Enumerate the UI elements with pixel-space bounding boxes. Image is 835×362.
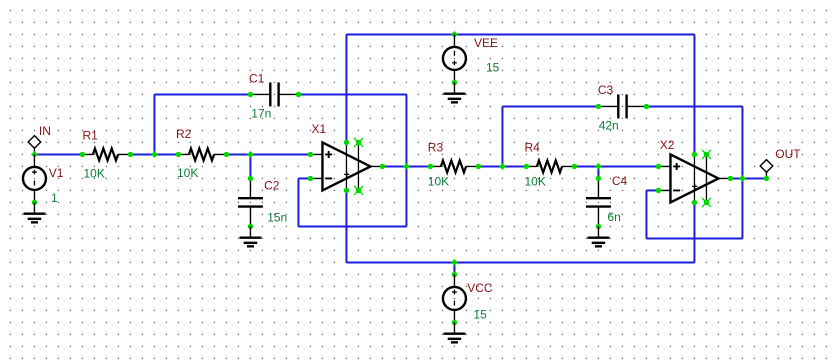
wire riser C1 to X1 output	[405, 94, 407, 166]
source VEE	[443, 47, 466, 70]
wire X1 feedback to -in	[298, 177, 310, 179]
wire X1 feedback riser	[297, 178, 299, 226]
wire rail right lower	[693, 202, 695, 262]
pin dot V1 minus	[32, 200, 37, 205]
svg-text:1: 1	[51, 191, 58, 205]
wire C3 right	[646, 105, 742, 107]
node C2 junction	[247, 151, 254, 158]
svg-text:10K: 10K	[177, 166, 198, 180]
pin dot VCC minus	[452, 320, 457, 325]
source VCC	[443, 287, 466, 310]
svg-text:VCC: VCC	[467, 281, 493, 295]
wire X2 feedback riser	[645, 190, 647, 238]
node C4 junction	[595, 163, 602, 170]
svg-text:6n: 6n	[607, 210, 620, 224]
source VCC top lead	[453, 274, 455, 287]
svg-text:C3: C3	[598, 83, 614, 97]
node X2 output junction	[739, 175, 746, 182]
wire node B riser to C3	[501, 106, 503, 166]
svg-text:15n: 15n	[267, 211, 287, 225]
svg-text:V1: V1	[49, 166, 64, 180]
ground C2	[239, 226, 261, 246]
capacitor C4	[586, 176, 611, 229]
wire rail left lower	[345, 190, 347, 262]
svg-text:R3: R3	[428, 141, 444, 155]
wire C3 left	[502, 105, 598, 107]
wire C2 drop	[249, 154, 251, 178]
source V1 top lead	[33, 154, 35, 167]
svg-text:VEE: VEE	[474, 36, 498, 50]
svg-text:10K: 10K	[84, 166, 105, 180]
port IN stub	[33, 148, 35, 154]
wire R1 to R2	[130, 153, 178, 155]
wire X1 output to R3	[382, 165, 430, 167]
wire X2 feedback bottom	[646, 237, 742, 239]
pin dot VCC plus	[452, 272, 457, 277]
resistor R2	[176, 148, 229, 160]
svg-text:C4: C4	[612, 174, 628, 188]
ground VEE	[443, 82, 465, 102]
node B junction	[499, 163, 506, 170]
svg-text:15: 15	[486, 61, 500, 75]
pin dot OUT	[764, 176, 769, 181]
ground C4	[587, 226, 609, 246]
svg-text:X2: X2	[660, 138, 675, 152]
svg-text:10K: 10K	[525, 175, 546, 189]
svg-text:IN: IN	[39, 124, 51, 138]
svg-text:R1: R1	[83, 129, 99, 143]
node IN junction	[31, 151, 38, 158]
node X1 output junction	[403, 163, 410, 170]
wire VEE rail top	[346, 33, 694, 35]
svg-text:C2: C2	[264, 179, 280, 193]
source VCC bottom lead	[453, 310, 455, 323]
node VEE rail junction	[451, 31, 458, 38]
source V1	[23, 167, 46, 190]
wire C4 drop	[597, 166, 599, 178]
capacitor C1	[248, 82, 301, 106]
port OUT stub	[765, 172, 767, 178]
pin dot VEE minus	[452, 80, 457, 85]
svg-text:C1: C1	[249, 72, 265, 86]
svg-text:R2: R2	[176, 127, 192, 141]
node A junction	[151, 151, 158, 158]
wire C1 right to riser	[298, 93, 406, 95]
wire rail left upper	[345, 34, 347, 142]
svg-text:15: 15	[473, 308, 487, 322]
source V1 bottom lead	[33, 190, 35, 203]
resistor R1	[80, 148, 133, 160]
wire VCC stub	[453, 262, 455, 274]
svg-text:OUT: OUT	[775, 147, 801, 161]
source VEE top lead	[453, 34, 455, 47]
port IN	[28, 136, 41, 149]
wire X1 feedback bottom	[298, 225, 406, 227]
svg-text:X1: X1	[312, 122, 327, 136]
capacitor C2	[238, 176, 263, 229]
wire VCC rail bottom	[346, 261, 694, 263]
node VCC rail junction	[451, 259, 458, 266]
svg-text:10K: 10K	[428, 175, 449, 189]
svg-text:42n: 42n	[599, 119, 619, 133]
ground V1	[23, 202, 45, 222]
wire X2 output node drop	[741, 178, 743, 238]
resistor R4	[524, 160, 577, 172]
wire C3 drop to X2 output	[741, 106, 743, 178]
wire X2 output to OUT	[730, 177, 766, 179]
capacitor C3	[596, 94, 649, 118]
op-amp X1	[308, 138, 385, 195]
svg-text:R4: R4	[525, 141, 541, 155]
wire X1 output node drop	[405, 166, 407, 226]
wire node A riser to C1	[153, 94, 155, 154]
ground VCC	[443, 322, 465, 342]
wire IN node to R1	[34, 153, 82, 155]
wire R3 to R4	[478, 165, 526, 167]
svg-text:17n: 17n	[251, 106, 271, 120]
op-amp X2	[656, 150, 733, 207]
wire C1 left	[154, 93, 250, 95]
resistor R3	[428, 160, 481, 172]
wire rail right upper	[693, 34, 695, 154]
port OUT	[760, 160, 773, 173]
wire R4 to X2 +in	[574, 165, 658, 167]
wire X2 feedback to -in	[646, 189, 658, 191]
source VEE bottom lead	[453, 70, 455, 83]
wire R2 to X1 +in	[226, 153, 310, 155]
